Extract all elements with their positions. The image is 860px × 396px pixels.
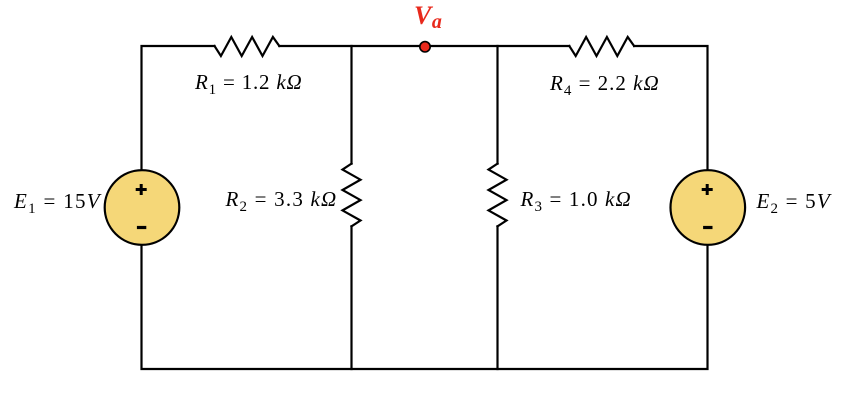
svg-text:R2 = 3.3 kΩ: R2 = 3.3 kΩ xyxy=(225,187,338,215)
svg-text:E1 = 15V: E1 = 15V xyxy=(13,189,102,217)
svg-text:R1 = 1.2 kΩ: R1 = 1.2 kΩ xyxy=(194,70,303,98)
svg-text:E2 = 5V: E2 = 5V xyxy=(756,189,832,217)
svg-text:R4 = 2.2 kΩ: R4 = 2.2 kΩ xyxy=(549,71,660,99)
svg-text:R3 = 1.0 kΩ: R3 = 1.0 kΩ xyxy=(520,187,632,215)
svg-text:Va: Va xyxy=(414,1,442,33)
